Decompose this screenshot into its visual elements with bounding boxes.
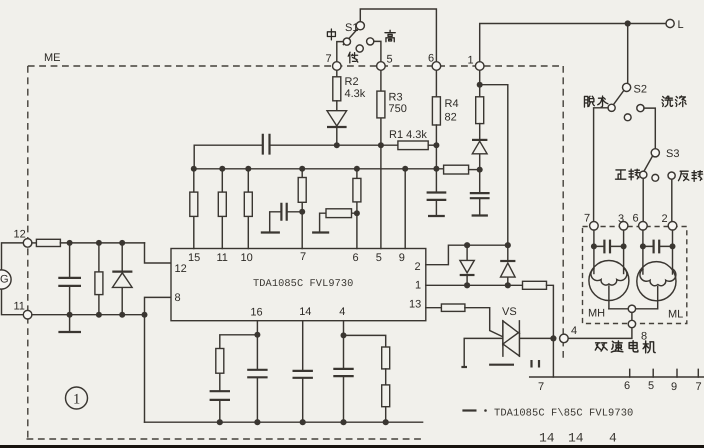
svg-text:1: 1 — [415, 280, 421, 292]
terminal 11 — [23, 310, 32, 319]
wire feedback row (left segment to coupling cap) — [194, 145, 262, 169]
wire branch right to double resistor leg — [344, 335, 386, 347]
wire pin 16 branch — [256, 321, 258, 335]
wire TG bottom lead to terminal 11 — [2, 289, 24, 315]
capacitor (coupling, horizontal) — [263, 134, 270, 155]
svg-text:10: 10 — [241, 252, 253, 264]
svg-text:L: L — [678, 19, 684, 31]
svg-text:15: 15 — [188, 252, 200, 264]
resistor (pin 10 pull-down) — [247, 169, 249, 249]
capacitor (input filter) — [69, 243, 71, 315]
node junction R3 column on row — [378, 142, 384, 148]
svg-text:750: 750 — [389, 103, 407, 115]
wire S2 stem — [627, 24, 629, 84]
node junction diode left top — [464, 242, 470, 248]
svg-text:G: G — [0, 274, 9, 286]
switch S2 contact mid — [624, 114, 631, 121]
wire tuoshui contact down to motor terminal 7 — [594, 108, 608, 222]
wire pin 2 up and over — [426, 245, 508, 265]
svg-text:R4: R4 — [445, 98, 459, 110]
wire branch left to resistor-cap leg — [220, 335, 258, 349]
node junction bottom rail A — [67, 312, 73, 318]
svg-text:9: 9 — [399, 252, 405, 264]
ground (pin 7 cap) — [261, 231, 280, 233]
svg-text:6: 6 — [624, 380, 630, 392]
svg-text:7: 7 — [584, 213, 590, 225]
node bottom bus dots — [217, 419, 223, 425]
wire bottom rail from terminal 11 — [32, 314, 145, 316]
switch S1 contact high — [367, 38, 374, 45]
svg-text:6: 6 — [428, 53, 434, 65]
node junction top rail B — [96, 240, 102, 246]
motor MH — [589, 261, 629, 301]
resistor (pin 16 leg) — [216, 349, 224, 374]
svg-text:R1 4.3k: R1 4.3k — [389, 129, 427, 141]
wire MH right column — [623, 230, 625, 273]
diode (right of pair, cathode up) — [507, 245, 509, 285]
node junction diode right bottom — [505, 282, 511, 288]
svg-text:S2: S2 — [634, 84, 647, 96]
node junction top rail C — [119, 240, 125, 246]
svg-text:12: 12 — [175, 263, 187, 275]
switch S2 contact tuoshui — [608, 104, 615, 111]
terminal 1 — [475, 62, 484, 71]
resistor (pin 4 leg lower) — [382, 385, 390, 407]
svg-text:2: 2 — [415, 261, 421, 273]
triac VS — [503, 321, 520, 356]
bottom connector rail (next figure, partial) — [530, 376, 704, 378]
resistor R2 4.3k — [336, 70, 338, 77]
wire R1 to terminal-6 column — [428, 144, 436, 146]
switch S3 contact fanzhuan — [668, 172, 675, 179]
wire L line to terminal 1 — [480, 24, 666, 62]
resistor (pin 7 column) — [301, 169, 303, 249]
wire triac MT1 side with stub — [464, 338, 553, 366]
svg-text:82: 82 — [445, 112, 457, 124]
switch S2 contact xidi — [637, 105, 644, 112]
switch S1 common pole — [356, 22, 364, 30]
wire resistor to triac output column — [547, 285, 554, 377]
wire R4 to bus — [435, 125, 437, 192]
stray scan bar below triac — [489, 364, 514, 366]
diode (terminal-1 column, cathode up) — [479, 124, 481, 170]
node junction L/S2 — [625, 20, 631, 26]
op-amp/controller IC U1 TDA1085C box — [171, 249, 426, 321]
motor unit dashed box — [583, 227, 687, 324]
diode (input clamp, cathode up) — [121, 243, 123, 315]
svg-text:11: 11 — [14, 301, 25, 313]
switch S3 common pole — [651, 149, 659, 157]
wire feedback row (cap to R1) — [270, 144, 398, 146]
node ML cap right — [670, 243, 676, 249]
terminal L — [666, 19, 674, 27]
capacitor (pin 7 to ground, horizontal) — [270, 212, 303, 232]
resistor (pin 15 pull-down) — [193, 169, 195, 249]
switch S3 contact mid — [652, 174, 659, 181]
capacitor (terminal-1 column to ground) — [479, 170, 481, 193]
svg-text:14: 14 — [539, 431, 555, 446]
node junction R2-diode column on row — [334, 142, 340, 148]
wire ML left column — [642, 230, 644, 274]
resistor (series input, unlabeled) — [36, 239, 60, 246]
wire pin 9 column — [404, 169, 406, 249]
wire S1 common to terminal 6 (top run) — [360, 9, 436, 62]
wire zhengzhuan contact down to motor terminal 6 — [642, 178, 644, 221]
wire ML right column — [672, 230, 674, 274]
svg-text:S1: S1 — [345, 22, 358, 34]
svg-text:16: 16 — [250, 307, 262, 319]
svg-text:4: 4 — [609, 431, 617, 446]
terminal 12 — [23, 239, 32, 248]
controller dashed box ME : right edge — [562, 66, 564, 359]
wire TG top lead to terminal 12 — [2, 243, 24, 270]
ground (terminal-1 cap) — [472, 214, 488, 216]
svg-text:S3: S3 — [666, 148, 679, 160]
capacitor (pin 14 column) — [302, 321, 304, 423]
motor terminal 3 — [619, 222, 628, 231]
node junction bottom rail C — [119, 312, 125, 318]
node MH cap left — [591, 243, 597, 249]
wire terminal 5 column down to pin 5 — [380, 70, 382, 248]
resistor (pin 11 pull-down) — [221, 169, 223, 249]
wire gate resistor to triac gate — [465, 308, 503, 337]
switch S1 blade — [343, 29, 357, 45]
switch S1 contact mid — [343, 38, 350, 45]
switch S2 common pole — [623, 83, 631, 91]
wire pin 4 branch — [343, 321, 345, 336]
wire common down — [631, 313, 633, 321]
terminal 4 — [560, 334, 569, 343]
resistor R4 82 — [435, 70, 437, 97]
capacitor (terminal-6 column to ground) — [427, 193, 447, 200]
ground (terminal-6 cap) — [428, 215, 445, 217]
node junction pin8/bottom rail — [142, 312, 148, 318]
label zhengzhuan (forward) — [615, 170, 625, 179]
svg-text:5: 5 — [387, 54, 393, 66]
svg-text:4.3k: 4.3k — [345, 88, 366, 100]
resistor (bus to terminal-1 node) — [444, 165, 469, 174]
wire MH left column — [593, 230, 595, 273]
node junction diode left bottom — [464, 282, 470, 288]
capacitor (MH run cap) — [594, 245, 624, 247]
label fanzhuan (reverse) — [678, 171, 688, 180]
svg-text:13: 13 — [409, 299, 421, 311]
node junction diode right top — [505, 242, 511, 248]
diode (below R2, cathode down) — [336, 101, 338, 145]
motor terminal 6 — [639, 222, 648, 231]
wire corner into IC pin 12 — [145, 243, 172, 263]
node junction pin7 column — [299, 209, 305, 215]
svg-text:7: 7 — [538, 381, 544, 393]
resistor (pin 6 to ground, horizontal) — [320, 213, 357, 231]
svg-text:14: 14 — [568, 431, 584, 446]
svg-text:7: 7 — [300, 251, 306, 263]
svg-text:5: 5 — [376, 252, 382, 264]
svg-text:14: 14 — [299, 306, 311, 318]
diode (left of pair, cathode down) — [466, 245, 468, 285]
node junction triac output — [550, 335, 556, 341]
terminal 5 — [377, 62, 386, 71]
capacitor (pin 4 column) — [343, 335, 345, 422]
capacitor (ML run cap) — [643, 245, 673, 247]
svg-text:R2: R2 — [345, 76, 359, 88]
motor ML — [637, 262, 676, 301]
capacitor (pin 16 column) — [256, 335, 258, 422]
ground (pin 6 resistor) — [312, 231, 329, 233]
figure number 1 circled — [66, 387, 88, 409]
controller dashed box ME : top edge — [28, 65, 563, 67]
node ML cap left — [640, 243, 646, 249]
wire pin 1 row — [426, 284, 523, 286]
node motor common circle — [628, 305, 635, 312]
svg-text:9: 9 — [671, 381, 677, 393]
ground (bottom rail) — [69, 315, 71, 331]
svg-text:5: 5 — [648, 380, 654, 392]
resistor R3 750 — [377, 91, 385, 118]
svg-text:6: 6 — [353, 252, 359, 264]
motor terminal 2 — [668, 222, 677, 231]
wire resistor to terminal-1 column — [469, 169, 480, 171]
svg-text:6: 6 — [633, 213, 639, 225]
svg-text:11: 11 — [217, 252, 228, 264]
resistor (pin 6 column) — [356, 169, 358, 249]
switch S3 blade — [641, 156, 653, 177]
terminal 6 — [432, 62, 441, 71]
wire top rail — [60, 242, 144, 244]
svg-text:R3: R3 — [389, 92, 403, 104]
svg-text:4: 4 — [571, 325, 577, 337]
wire contact mid to terminal 7 — [337, 42, 344, 62]
wire bottom bus — [145, 421, 423, 423]
wire terminal 1 column — [479, 70, 481, 97]
wire between leg resistors — [385, 369, 387, 385]
node junction R1 right — [433, 142, 439, 148]
tachogenerator TG — [0, 270, 11, 289]
svg-text:1: 1 — [73, 392, 80, 408]
svg-text:4: 4 — [339, 306, 345, 318]
label tuoshui (spin) — [584, 96, 594, 107]
resistor (gate series) — [441, 304, 465, 311]
wire xidi contact to S3 — [644, 108, 655, 149]
wire terminal-1 tee down the middle column — [480, 85, 508, 246]
caption dash — [462, 409, 476, 411]
svg-text:3: 3 — [618, 213, 624, 225]
node MH cap right — [621, 243, 627, 249]
wire motor common — [609, 308, 657, 310]
resistor (input shunt) — [98, 243, 100, 315]
resistor (terminal-1 series) — [476, 97, 484, 124]
node junction terminal-1 tee — [477, 82, 483, 88]
node box-edge circle 8 — [628, 320, 635, 327]
wire leg to bottom bus — [385, 407, 387, 423]
svg-text:7: 7 — [696, 381, 702, 393]
capacitor (pin 16 leg, below resistor) — [219, 373, 221, 422]
label xidi (wash) — [662, 96, 673, 106]
svg-text:1: 1 — [468, 55, 474, 67]
svg-text:8: 8 — [175, 292, 181, 304]
wire common to terminal 4 — [568, 328, 632, 339]
node junction bottom rail B — [96, 312, 102, 318]
svg-text:TDA1085C FVL9730: TDA1085C FVL9730 — [253, 278, 353, 290]
wire bus row above IC — [194, 168, 444, 170]
wire contact high to terminal 5 — [374, 41, 381, 61]
svg-text:VS: VS — [502, 306, 517, 318]
label shuangsu dianji (two-speed motor) — [595, 343, 607, 351]
svg-text:MH: MH — [588, 308, 605, 320]
controller dashed box ME : left edge — [27, 66, 29, 439]
resistor (pin 4 leg upper) — [382, 347, 390, 369]
switch S3 contact zhengzhuan — [640, 171, 647, 178]
switch S2 blade — [610, 91, 624, 110]
label di (low) — [348, 52, 358, 63]
svg-text:2: 2 — [662, 213, 668, 225]
resistor (pin 1 series) — [523, 281, 547, 289]
label gao (high) — [385, 30, 395, 41]
svg-text:ME: ME — [44, 52, 61, 64]
dashes left of rail — [532, 360, 540, 368]
wire IC pin 8 to bottom bus — [145, 297, 172, 422]
node bus dots — [191, 166, 197, 172]
svg-text:7: 7 — [326, 53, 332, 65]
node junction terminal-1 column / resistor row — [477, 167, 483, 173]
label zhong (medium) — [327, 29, 335, 40]
wire pin 13 to gate resistor — [426, 307, 442, 309]
wire fanzhuan contact down to motor terminal 2 — [671, 179, 673, 221]
wire top rail from terminal 12 to R input — [32, 242, 37, 244]
node junction pin6 column — [354, 210, 360, 216]
terminal 7 — [333, 62, 342, 71]
switch S1 contact low — [356, 45, 363, 52]
controller dashed box ME : bottom edge — [27, 438, 424, 440]
svg-text:12: 12 — [14, 229, 26, 241]
node junction top rail A — [67, 240, 73, 246]
svg-text:TDA1085C F\85C FVL9730: TDA1085C F\85C FVL9730 — [494, 408, 633, 420]
svg-text:ML: ML — [668, 309, 683, 321]
resistor R1 4.3k — [398, 141, 428, 150]
motor terminal 7 — [590, 222, 599, 231]
page bottom edge black bar — [0, 445, 704, 448]
